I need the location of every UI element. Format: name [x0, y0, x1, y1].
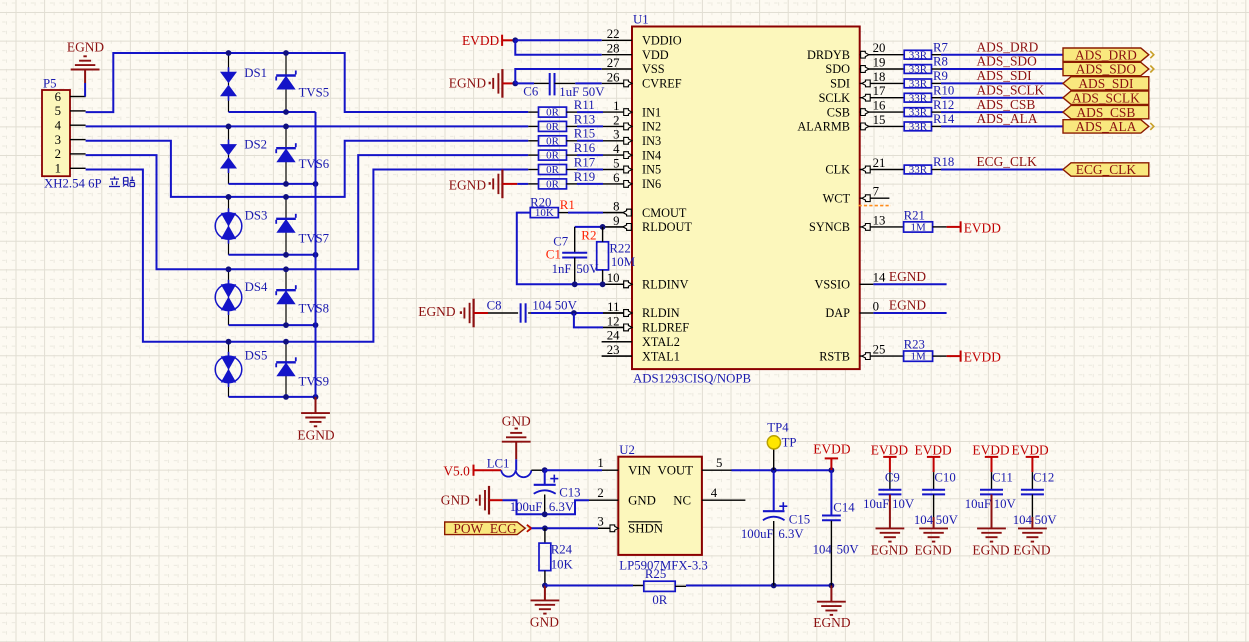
- svg-text:IN3: IN3: [642, 134, 661, 148]
- svg-text:27: 27: [607, 56, 620, 70]
- svg-text:POW_ECG: POW_ECG: [453, 521, 517, 536]
- svg-text:23: 23: [607, 343, 620, 357]
- svg-text:14: 14: [873, 271, 886, 285]
- svg-text:100uF: 100uF: [510, 500, 543, 514]
- svg-text:1nF: 1nF: [552, 262, 572, 276]
- svg-text:5: 5: [55, 104, 61, 118]
- svg-text:DAP: DAP: [825, 306, 850, 320]
- svg-text:IN5: IN5: [642, 163, 661, 177]
- svg-text:R22: R22: [609, 242, 630, 256]
- svg-text:SYNCB: SYNCB: [809, 220, 850, 234]
- svg-text:ADS_DRD: ADS_DRD: [977, 39, 1039, 54]
- svg-text:50V: 50V: [576, 262, 599, 276]
- svg-text:ADS_SDI: ADS_SDI: [1078, 76, 1133, 91]
- svg-text:10V: 10V: [994, 497, 1017, 511]
- svg-text:26: 26: [607, 70, 620, 84]
- svg-text:22: 22: [607, 27, 620, 41]
- svg-text:0R: 0R: [652, 593, 667, 607]
- svg-text:104: 104: [813, 543, 833, 557]
- svg-text:R13: R13: [574, 112, 595, 126]
- svg-text:5: 5: [716, 456, 722, 470]
- svg-text:50V: 50V: [837, 543, 860, 557]
- svg-text:R9: R9: [933, 69, 948, 83]
- svg-text:ECG_CLK: ECG_CLK: [1076, 162, 1137, 177]
- svg-text:R19: R19: [574, 170, 595, 184]
- svg-text:EVDD: EVDD: [972, 443, 1010, 458]
- svg-text:EGND: EGND: [914, 543, 952, 558]
- svg-text:VDD: VDD: [642, 48, 669, 62]
- svg-text:ADS_CSB: ADS_CSB: [977, 97, 1036, 112]
- svg-text:R8: R8: [933, 55, 948, 69]
- svg-text:C12: C12: [1033, 470, 1054, 484]
- svg-text:C15: C15: [789, 513, 810, 527]
- svg-text:CSB: CSB: [827, 105, 850, 119]
- svg-text:33R: 33R: [909, 78, 928, 90]
- svg-text:6.3V: 6.3V: [778, 527, 804, 541]
- svg-text:EGND: EGND: [871, 543, 909, 558]
- svg-text:R7: R7: [933, 40, 949, 54]
- svg-text:3: 3: [55, 133, 61, 147]
- svg-text:33R: 33R: [909, 64, 928, 76]
- svg-text:16: 16: [873, 99, 886, 113]
- svg-text:EGND: EGND: [449, 178, 487, 193]
- svg-text:ADS1293CISQ/NOPB: ADS1293CISQ/NOPB: [633, 372, 751, 386]
- svg-text:7: 7: [873, 185, 880, 199]
- svg-text:10V: 10V: [892, 497, 915, 511]
- svg-text:R14: R14: [933, 112, 955, 126]
- svg-text:17: 17: [873, 84, 886, 98]
- svg-text:6: 6: [55, 90, 62, 104]
- svg-text:0R: 0R: [546, 135, 560, 147]
- svg-text:ADS_SDO: ADS_SDO: [1076, 62, 1137, 77]
- svg-text:104: 104: [1013, 513, 1033, 527]
- svg-text:RLDOUT: RLDOUT: [642, 220, 692, 234]
- svg-text:25: 25: [873, 343, 886, 357]
- svg-text:DRDYB: DRDYB: [807, 48, 850, 62]
- svg-text:2: 2: [597, 486, 603, 500]
- svg-text:RLDIN: RLDIN: [642, 306, 680, 320]
- svg-text:VIN: VIN: [628, 464, 651, 478]
- svg-text:SHDN: SHDN: [628, 522, 663, 536]
- svg-text:XH2.54 6P: XH2.54 6P: [44, 177, 102, 191]
- svg-text:24: 24: [607, 329, 620, 343]
- svg-text:VSSIO: VSSIO: [814, 278, 850, 292]
- svg-text:XTAL2: XTAL2: [642, 335, 680, 349]
- svg-text:DS2: DS2: [244, 138, 267, 152]
- svg-text:18: 18: [873, 70, 886, 84]
- svg-text:R25: R25: [645, 567, 666, 581]
- svg-text:EVDD: EVDD: [1011, 443, 1049, 458]
- svg-text:1M: 1M: [910, 351, 926, 363]
- svg-text:6: 6: [613, 171, 620, 185]
- svg-text:R16: R16: [574, 141, 596, 155]
- svg-text:CLK: CLK: [825, 163, 850, 177]
- svg-text:TVS5: TVS5: [299, 86, 330, 100]
- svg-text:33R: 33R: [909, 92, 928, 104]
- svg-text:9: 9: [613, 214, 619, 228]
- svg-text:ADS_SCLK: ADS_SCLK: [1072, 90, 1140, 105]
- svg-text:P5: P5: [43, 77, 57, 91]
- svg-text:C11: C11: [992, 470, 1013, 484]
- svg-text:EGND: EGND: [972, 543, 1010, 558]
- svg-text:EVDD: EVDD: [871, 443, 909, 458]
- svg-text:GND: GND: [441, 493, 470, 508]
- svg-text:6.3V: 6.3V: [549, 500, 575, 514]
- svg-text:1uF 50V: 1uF 50V: [559, 85, 605, 99]
- svg-text:TP: TP: [782, 436, 797, 450]
- svg-text:C14: C14: [833, 501, 855, 515]
- svg-text:CVREF: CVREF: [642, 77, 682, 91]
- svg-text:ADS_ALA: ADS_ALA: [1075, 119, 1136, 134]
- svg-text:11: 11: [607, 300, 619, 314]
- svg-text:DS5: DS5: [245, 349, 268, 363]
- svg-text:0R: 0R: [546, 164, 560, 176]
- svg-text:4: 4: [55, 119, 62, 133]
- svg-text:EGND: EGND: [813, 615, 851, 630]
- svg-text:ADS_SDO: ADS_SDO: [977, 54, 1038, 69]
- svg-text:U1: U1: [633, 13, 649, 27]
- svg-text:15: 15: [873, 113, 886, 127]
- svg-text:R18: R18: [933, 155, 954, 169]
- svg-text:SDO: SDO: [825, 62, 850, 76]
- svg-text:TVS8: TVS8: [299, 301, 330, 315]
- svg-text:1: 1: [55, 162, 61, 176]
- svg-text:EGND: EGND: [889, 269, 927, 284]
- svg-text:8: 8: [613, 200, 619, 214]
- svg-text:VDDIO: VDDIO: [642, 34, 682, 48]
- svg-text:104: 104: [914, 513, 934, 527]
- svg-text:DS1: DS1: [244, 66, 267, 80]
- svg-text:5: 5: [613, 156, 619, 170]
- svg-text:C9: C9: [885, 470, 900, 484]
- svg-text:IN4: IN4: [642, 148, 661, 162]
- svg-text:3: 3: [613, 128, 619, 142]
- svg-text:13: 13: [873, 213, 886, 227]
- svg-text:EVDD: EVDD: [813, 441, 851, 456]
- svg-text:R21: R21: [904, 208, 925, 222]
- svg-text:ALARMB: ALARMB: [797, 120, 850, 134]
- svg-text:33R: 33R: [909, 121, 928, 133]
- svg-text:10K: 10K: [551, 558, 574, 572]
- svg-text:10K: 10K: [535, 207, 554, 219]
- svg-text:SDI: SDI: [830, 77, 850, 91]
- svg-text:12: 12: [607, 314, 620, 328]
- svg-text:R15: R15: [574, 127, 595, 141]
- svg-text:EVDD: EVDD: [462, 33, 500, 48]
- svg-text:C8: C8: [487, 299, 502, 313]
- svg-text:DS4: DS4: [245, 280, 268, 294]
- svg-text:20: 20: [873, 41, 886, 55]
- svg-text:4: 4: [613, 142, 620, 156]
- svg-text:VOUT: VOUT: [657, 464, 693, 478]
- svg-text:RLDREF: RLDREF: [642, 321, 689, 335]
- svg-text:R12: R12: [933, 98, 954, 112]
- svg-text:R2: R2: [581, 228, 596, 243]
- svg-text:21: 21: [873, 156, 886, 170]
- svg-text:0R: 0R: [546, 179, 560, 191]
- svg-text:SCLK: SCLK: [819, 91, 851, 105]
- svg-text:19: 19: [873, 55, 886, 69]
- svg-text:RLDINV: RLDINV: [642, 278, 689, 292]
- svg-text:VSS: VSS: [642, 62, 665, 76]
- svg-text:NC: NC: [673, 494, 691, 508]
- svg-text:3: 3: [597, 514, 603, 528]
- svg-text:R11: R11: [574, 98, 595, 112]
- svg-text:IN2: IN2: [642, 120, 661, 134]
- svg-text:LC1: LC1: [487, 456, 510, 470]
- svg-text:IN1: IN1: [642, 105, 661, 119]
- svg-text:10uF: 10uF: [965, 497, 991, 511]
- svg-text:50V: 50V: [1035, 513, 1058, 527]
- svg-text:33R: 33R: [909, 164, 928, 176]
- svg-text:GND: GND: [628, 494, 656, 508]
- svg-text:4: 4: [711, 486, 718, 500]
- svg-text:ECG_CLK: ECG_CLK: [977, 154, 1038, 169]
- svg-text:100uF: 100uF: [741, 527, 774, 541]
- svg-text:EVDD: EVDD: [964, 350, 1002, 365]
- svg-text:C1: C1: [546, 247, 561, 262]
- svg-text:IN6: IN6: [642, 177, 661, 191]
- svg-text:ADS_SCLK: ADS_SCLK: [977, 82, 1045, 97]
- svg-text:DS3: DS3: [245, 209, 268, 223]
- svg-text:XTAL1: XTAL1: [642, 349, 680, 363]
- svg-text:TVS6: TVS6: [299, 157, 330, 171]
- svg-text:1: 1: [597, 456, 603, 470]
- svg-text:R1: R1: [560, 197, 575, 212]
- svg-text:C10: C10: [934, 470, 955, 484]
- svg-text:28: 28: [607, 42, 620, 56]
- svg-text:U2: U2: [619, 443, 635, 457]
- svg-text:10M: 10M: [611, 255, 635, 269]
- svg-text:V5.0: V5.0: [443, 464, 470, 479]
- svg-text:R24: R24: [551, 543, 573, 557]
- svg-text:C6: C6: [523, 85, 539, 99]
- svg-text:1M: 1M: [910, 222, 926, 234]
- svg-text:0R: 0R: [546, 121, 560, 133]
- svg-text:EGND: EGND: [418, 304, 456, 319]
- svg-text:2: 2: [613, 113, 619, 127]
- svg-text:RSTB: RSTB: [819, 349, 850, 363]
- svg-text:EGND: EGND: [889, 298, 927, 313]
- svg-text:10: 10: [607, 271, 620, 285]
- svg-text:ADS_DRD: ADS_DRD: [1075, 47, 1137, 62]
- svg-text:R23: R23: [904, 338, 925, 352]
- svg-text:EGND: EGND: [1013, 543, 1051, 558]
- svg-text:GND: GND: [502, 414, 531, 429]
- svg-text:EVDD: EVDD: [964, 221, 1002, 236]
- svg-text:1: 1: [613, 99, 619, 113]
- svg-text:33R: 33R: [909, 107, 928, 119]
- svg-text:0R: 0R: [546, 107, 560, 119]
- svg-text:ADS_ALA: ADS_ALA: [977, 111, 1038, 126]
- svg-text:33R: 33R: [909, 49, 928, 61]
- svg-text:C13: C13: [559, 485, 580, 499]
- svg-text:R10: R10: [933, 83, 954, 97]
- svg-text:104 50V: 104 50V: [532, 299, 577, 313]
- svg-text:10uF: 10uF: [863, 497, 889, 511]
- svg-text:R17: R17: [574, 155, 596, 169]
- svg-text:0: 0: [873, 299, 879, 313]
- svg-text:TP4: TP4: [767, 421, 789, 435]
- svg-text:EVDD: EVDD: [914, 443, 952, 458]
- svg-text:ADS_CSB: ADS_CSB: [1077, 105, 1136, 120]
- svg-text:ADS_SDI: ADS_SDI: [977, 68, 1032, 83]
- svg-text:EGND: EGND: [297, 428, 335, 443]
- svg-text:EGND: EGND: [67, 39, 105, 54]
- svg-text:EGND: EGND: [449, 76, 487, 91]
- svg-text:50V: 50V: [936, 513, 959, 527]
- svg-text:0R: 0R: [546, 150, 560, 162]
- svg-text:2: 2: [55, 147, 61, 161]
- svg-text:CMOUT: CMOUT: [642, 206, 687, 220]
- svg-text:WCT: WCT: [823, 191, 851, 205]
- svg-text:GND: GND: [530, 615, 559, 630]
- svg-text:TVS9: TVS9: [299, 374, 330, 388]
- svg-text:TVS7: TVS7: [299, 231, 330, 245]
